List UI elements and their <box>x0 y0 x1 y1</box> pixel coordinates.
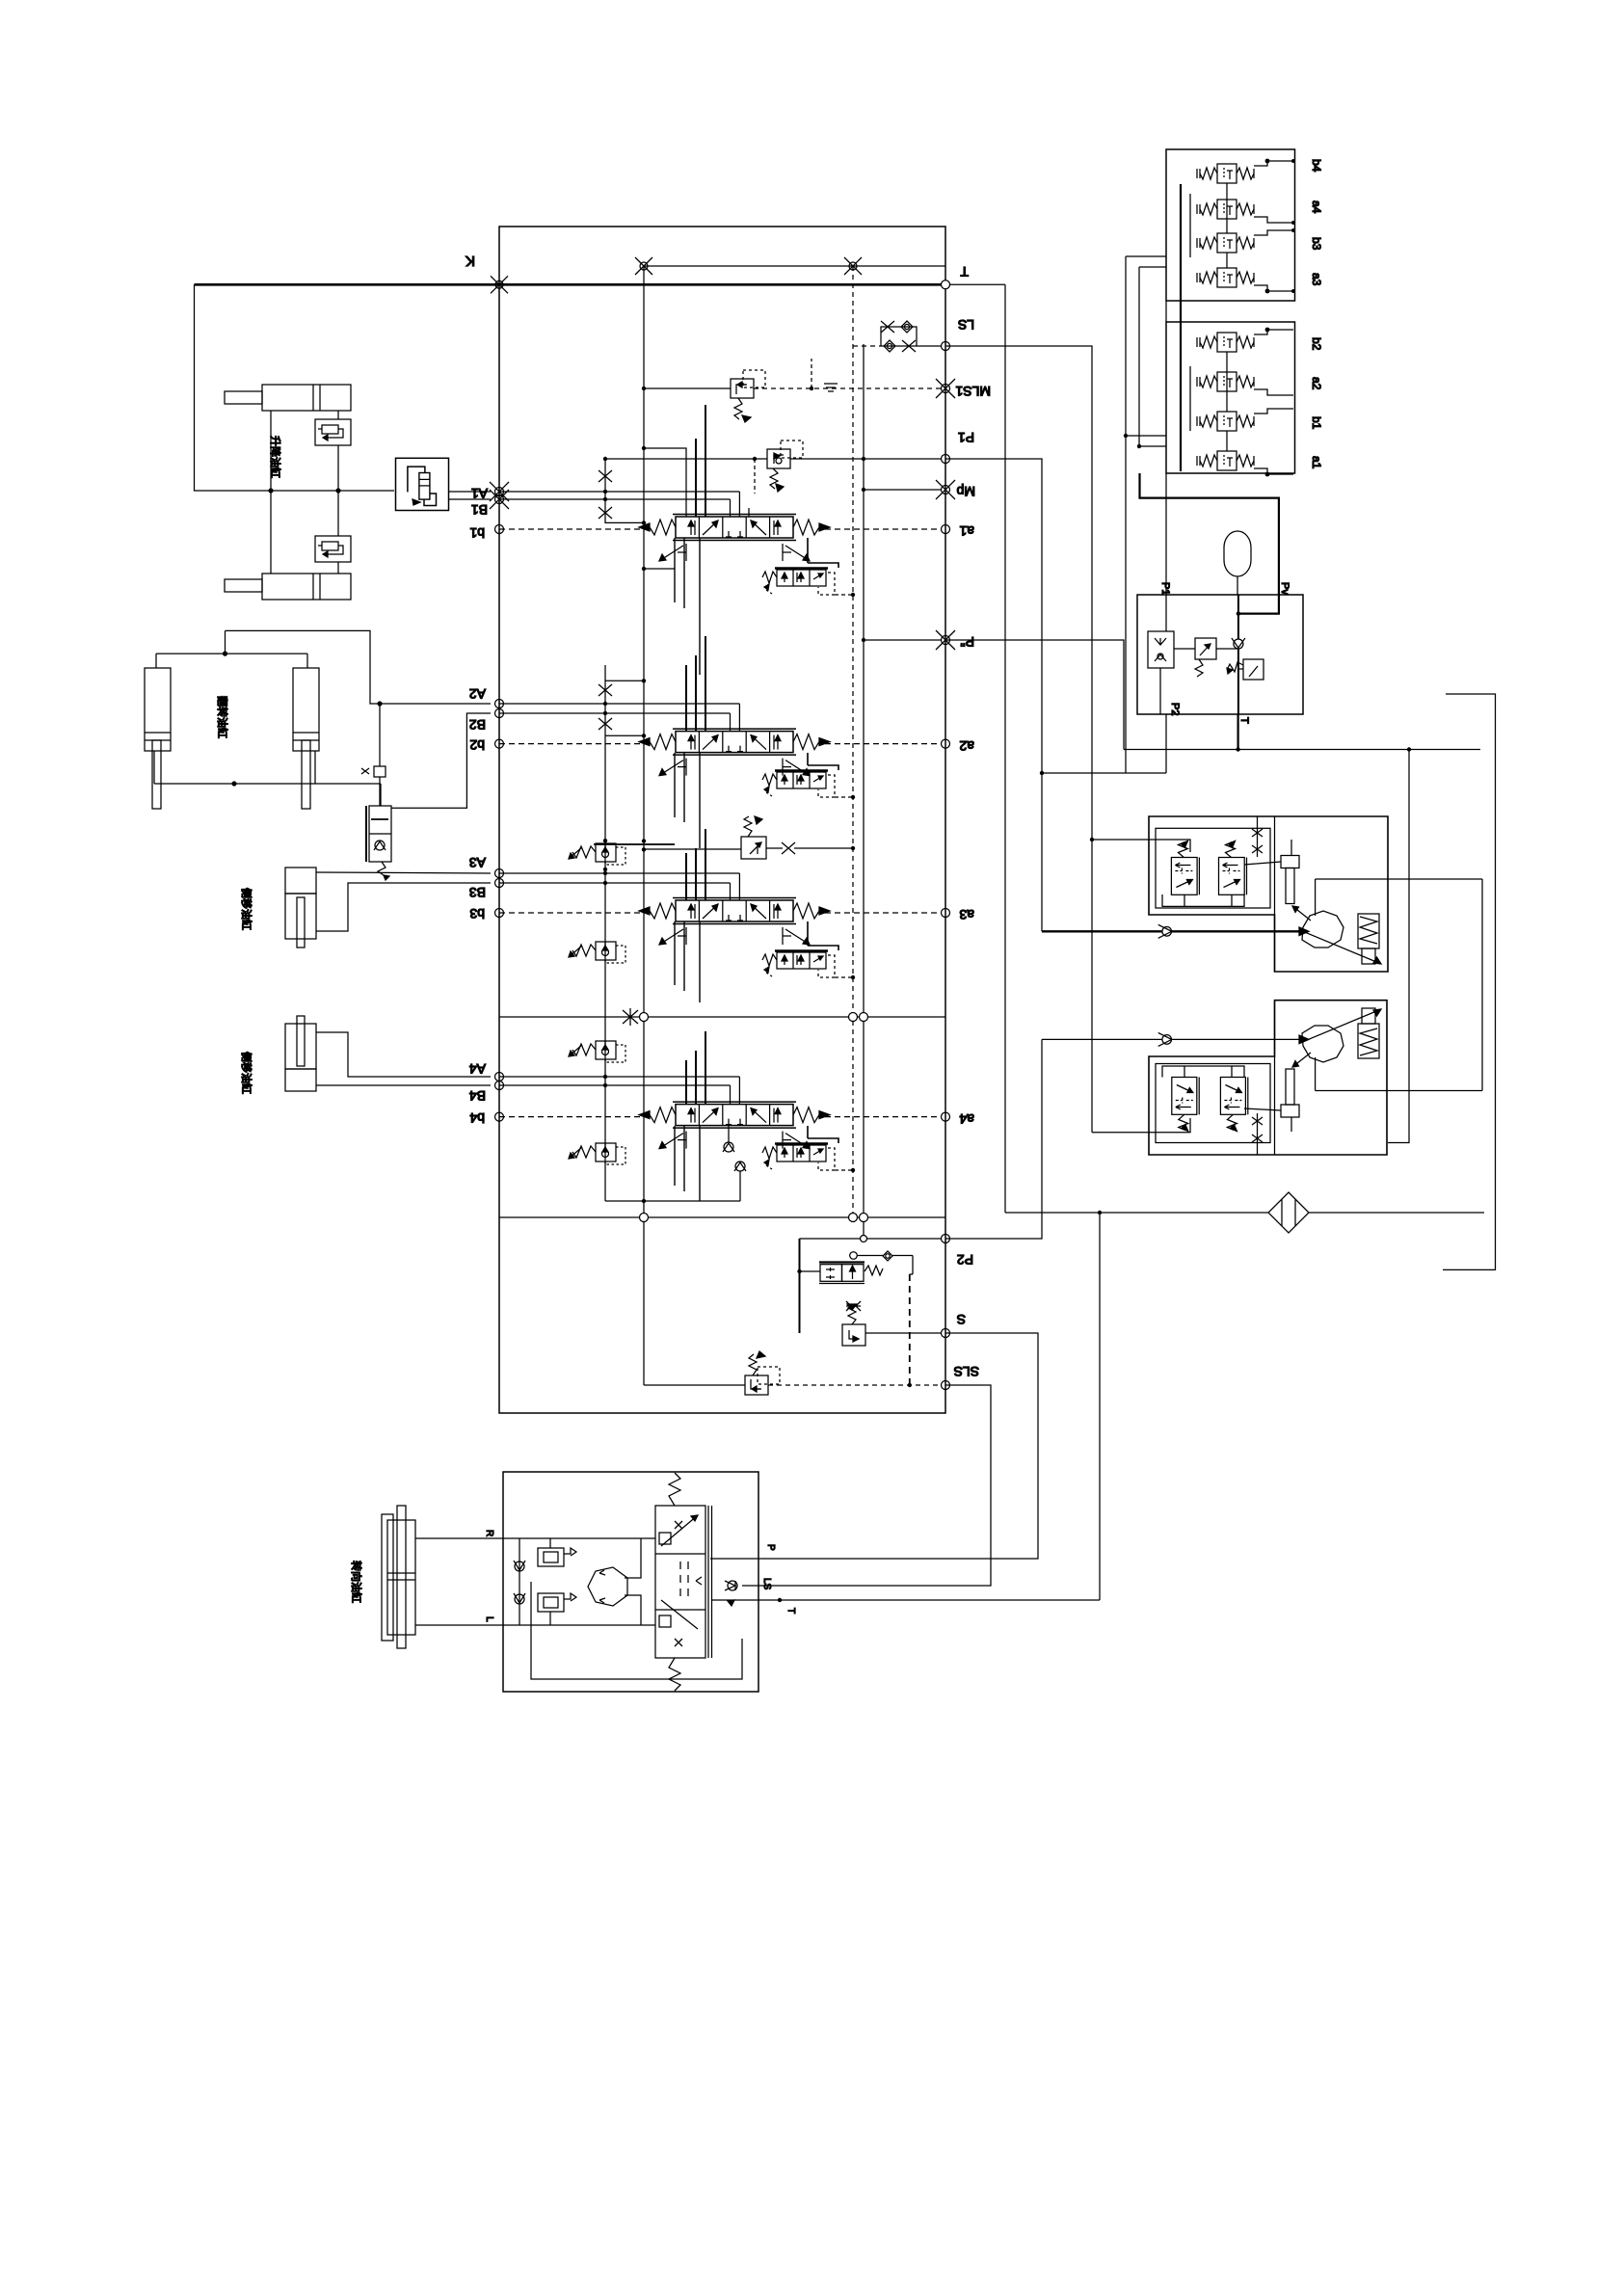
pilot reducing valve 4a <box>569 1041 625 1062</box>
svg-text:T: T <box>1238 717 1250 724</box>
motor1 LS feed <box>1092 840 1190 852</box>
lift cylinder 2 risers <box>270 491 272 574</box>
pilot reducing valve 4b <box>569 1143 625 1164</box>
brake cylinder 2 <box>1281 1105 1299 1117</box>
A3 cylinder lines <box>316 872 491 873</box>
section4 A/B feeds <box>499 1076 739 1078</box>
bus 668 crossing circles at separators <box>640 1013 649 1022</box>
section3 A/B feeds <box>499 872 739 874</box>
port A4 <box>495 1073 504 1081</box>
overload/make-up valve <box>361 766 391 880</box>
svg-text:Mp: Mp <box>956 484 975 499</box>
svg-text:翻转油缸: 翻转油缸 <box>216 696 229 738</box>
motor 2 <box>1302 1026 1344 1062</box>
supply block internals <box>1148 595 1264 714</box>
svg-text:LS: LS <box>761 1578 772 1590</box>
svg-text:侧移油缸: 侧移油缸 <box>240 888 253 930</box>
P2 line right <box>945 1039 1042 1239</box>
svg-text:a2: a2 <box>1310 377 1323 390</box>
bridge check bottom <box>884 340 895 352</box>
box connector stubs <box>1165 301 1167 322</box>
svg-text:LS: LS <box>958 317 974 333</box>
motor1 case drain drop <box>1388 750 1409 1143</box>
port a4 <box>942 1112 950 1121</box>
SLS line right to steering LS <box>742 1385 991 1586</box>
port a3 <box>942 909 950 918</box>
S relief valve <box>842 1304 865 1346</box>
svg-text:b4: b4 <box>1310 159 1323 173</box>
box2 output rails <box>1254 330 1293 334</box>
T tank drop <box>1004 284 1006 1213</box>
SLS dashed to port <box>768 1384 942 1386</box>
svg-text:a1: a1 <box>1310 456 1323 469</box>
brake cylinder 1 <box>1281 856 1299 868</box>
pilot feed verticals <box>1125 256 1127 773</box>
tank/filter line <box>1005 1212 1268 1214</box>
dashed drop from P1 line <box>754 459 756 494</box>
b3-a3 pilot line <box>499 912 644 914</box>
svg-text:Pv: Pv <box>1279 582 1290 595</box>
top inner tank line <box>644 265 945 267</box>
svg-text:b4: b4 <box>469 1110 485 1126</box>
box1 inner connectors <box>1226 183 1228 233</box>
svg-text:B4: B4 <box>469 1088 486 1104</box>
svg-text:a4: a4 <box>959 1111 974 1127</box>
prv a4 <box>1197 200 1254 219</box>
S line right to steering P <box>710 1333 1038 1559</box>
svg-text:P2: P2 <box>957 1252 973 1268</box>
supply block P2 stub <box>1165 714 1167 773</box>
steering control valve <box>655 1506 705 1658</box>
motor1 orifices <box>1252 829 1263 837</box>
pump regulator piston <box>820 1265 842 1282</box>
svg-text:P1: P1 <box>958 430 974 445</box>
right tank main vertical <box>1443 694 1496 1269</box>
svg-text:b2: b2 <box>1310 337 1323 351</box>
dashed drop to SLS <box>909 1274 911 1385</box>
steering cylinder <box>387 1520 415 1635</box>
port B3 <box>495 879 504 888</box>
port b2 <box>495 739 504 748</box>
svg-text:S: S <box>957 1312 966 1327</box>
port P'' <box>936 630 955 650</box>
pilot relief <box>1243 659 1264 680</box>
steering T riser <box>1099 1213 1101 1600</box>
solid bus x=896 <box>863 344 865 1239</box>
pilot box 1 <box>1166 149 1295 301</box>
MLS1 relief valve <box>731 379 754 422</box>
pilot feed branch <box>1042 772 1166 774</box>
vertical bus x=668 <box>643 266 645 1385</box>
motor1 bottom rail <box>1162 894 1244 906</box>
valve2 top connectors <box>686 636 705 731</box>
svg-text:B3: B3 <box>469 885 486 900</box>
P'' line <box>864 639 942 641</box>
LS check <box>725 1581 737 1590</box>
svg-text:a3: a3 <box>1310 273 1323 286</box>
tilt cylinder L <box>145 668 171 809</box>
cb valve 1a <box>1171 841 1199 895</box>
valve2 bottom connectors <box>675 753 700 848</box>
SLS feed from bus <box>644 1384 745 1386</box>
motor2 valve sub-box <box>1156 1064 1270 1143</box>
compensator section3 <box>741 816 766 859</box>
LS branch to motor1 <box>1090 838 1094 841</box>
port S <box>942 1329 950 1338</box>
dashed LS bus x=885 <box>852 266 854 1217</box>
L line <box>415 1624 655 1626</box>
valve4 top connectors <box>686 1031 705 1104</box>
prv b2 <box>1197 333 1254 352</box>
MLS1 drain mark <box>824 384 838 391</box>
spool valve 4 <box>639 1102 830 1149</box>
anti-drift valve 4 <box>762 1144 835 1171</box>
valve3 top connectors <box>686 829 705 900</box>
crossover check valves <box>519 1538 520 1625</box>
port Mp <box>936 480 955 499</box>
inlet shuttle <box>1148 631 1174 668</box>
left outer loop wire <box>195 284 395 491</box>
check on motor2 pilot <box>1158 1032 1172 1046</box>
section2 A/B feeds <box>499 703 739 705</box>
overload valve to B2 <box>391 713 491 808</box>
box1 port dots <box>1291 159 1295 163</box>
A1 line filter box <box>396 458 449 510</box>
svg-text:SLS: SLS <box>954 1364 979 1379</box>
svg-text:P2: P2 <box>1169 703 1181 715</box>
T line inside <box>712 1599 743 1601</box>
prv b4 <box>1197 164 1254 183</box>
valve1 bottom connectors <box>675 538 700 675</box>
motor2 internal lines <box>1315 1057 1317 1091</box>
pilot box 2 <box>1166 322 1295 473</box>
Pv pressure line (thick) <box>1140 473 1279 595</box>
spool valve 3 <box>639 898 830 946</box>
section2 orifices <box>599 684 612 696</box>
K / T main line (thick) <box>195 283 946 286</box>
lift cylinder 1 (top) <box>225 385 351 411</box>
spool center dashes <box>680 1562 688 1596</box>
drain header <box>1124 749 1480 751</box>
svg-text:升降油缸: 升降油缸 <box>269 436 282 478</box>
svg-text:A4: A4 <box>469 1061 486 1077</box>
svg-text:R: R <box>484 1530 494 1536</box>
svg-text:MLS1: MLS1 <box>955 384 991 399</box>
b1-a1 pilot line (dashed) <box>499 528 644 530</box>
P1 line across block <box>605 458 767 460</box>
port SLS <box>942 1381 950 1390</box>
svg-text:b1: b1 <box>469 525 485 541</box>
accumulator <box>1224 531 1251 595</box>
section separator 2 <box>499 1216 945 1218</box>
section separator 1 <box>499 1016 945 1018</box>
port LS <box>942 342 950 351</box>
tilt rod-end tie line <box>156 653 307 654</box>
svg-text:K: K <box>466 253 475 269</box>
motor2 pilot line (thick) <box>1042 1038 1299 1040</box>
spool valve 1 <box>639 515 830 562</box>
bridge orifice top <box>881 321 894 333</box>
tilt cylinder R <box>293 668 319 809</box>
S line <box>865 1332 942 1334</box>
svg-text:P1: P1 <box>1159 582 1171 595</box>
motor1 internal lines <box>1315 879 1317 916</box>
A2 supply route <box>226 630 492 704</box>
port A2 <box>495 700 504 708</box>
steering inner box <box>531 1582 742 1679</box>
port B2 <box>495 709 504 718</box>
anti-drift valve 1 <box>762 569 835 596</box>
port P1 <box>942 455 950 464</box>
port T <box>942 280 950 289</box>
motor2 top rail <box>1162 1066 1244 1078</box>
svg-text:b2: b2 <box>469 737 485 753</box>
check valves below valve4 <box>723 1142 734 1152</box>
tilt bottom tie line <box>154 783 381 785</box>
LS line right <box>945 346 1092 1133</box>
LS check bridge frame <box>881 327 917 346</box>
svg-text:P: P <box>765 1544 776 1551</box>
prv a1 <box>1197 451 1254 470</box>
spool valve 2 <box>639 729 830 776</box>
svg-text:B1: B1 <box>471 502 488 518</box>
prv b1 <box>1197 412 1254 431</box>
motor2 L-outline <box>1149 1001 1387 1155</box>
plug X on K line at block edge <box>491 276 508 293</box>
cb valve 2b <box>1220 1078 1247 1132</box>
motor 1 <box>1302 911 1344 948</box>
cb valve 2a <box>1172 1078 1199 1132</box>
reducing valve <box>1195 638 1216 659</box>
prv a3 <box>1197 268 1254 287</box>
pilot reducing valve 3b <box>569 942 625 963</box>
A2 branch to overload valve <box>379 704 381 766</box>
SLS relief valve <box>745 1351 768 1395</box>
svg-text:P'': P'' <box>960 634 974 650</box>
cb valve 2 <box>315 536 351 562</box>
port relief R <box>538 1538 576 1566</box>
gerotor <box>588 1567 627 1606</box>
svg-text:b1: b1 <box>1310 416 1323 430</box>
port A3 <box>495 869 504 878</box>
bottom collector line section 4 <box>605 1200 740 1202</box>
box2 inner connectors <box>1226 352 1228 412</box>
svg-text:侧移油缸: 侧移油缸 <box>240 1052 253 1094</box>
check ball right <box>883 1251 892 1261</box>
bridge orifice bottom <box>902 340 916 352</box>
orifice on separator 1 <box>623 1008 638 1026</box>
port a1 <box>942 525 950 534</box>
svg-text:a2: a2 <box>959 738 974 754</box>
port b1 <box>495 525 504 534</box>
svg-text:b3: b3 <box>1310 237 1323 251</box>
svg-text:a4: a4 <box>1310 200 1323 214</box>
orifices on bus 628 section1 <box>599 470 612 482</box>
anti-drift valve 3 <box>762 951 835 978</box>
check on motor1 pilot <box>1158 924 1172 938</box>
port P2 <box>942 1235 950 1243</box>
svg-text:B2: B2 <box>469 717 486 733</box>
svg-text:A2: A2 <box>469 686 486 702</box>
svg-text:L: L <box>484 1616 494 1622</box>
MLS1 relief feed from bus <box>644 387 731 389</box>
Mp stub <box>864 489 942 491</box>
P2 feed drop <box>799 1239 801 1333</box>
P1 line right <box>945 459 1042 931</box>
LS line to bridge <box>853 345 881 347</box>
motor2 LS feed <box>1092 1118 1190 1133</box>
motor1 pilot line (thick) <box>1042 930 1299 932</box>
prv a2 <box>1197 372 1254 391</box>
bridge check top <box>901 321 913 333</box>
valve3 bottom connectors <box>675 921 700 1002</box>
svg-text:a1: a1 <box>959 523 974 539</box>
port b3 <box>495 909 504 918</box>
motor outlet tie <box>1481 879 1483 1091</box>
svg-text:转向油缸: 转向油缸 <box>350 1561 363 1603</box>
svg-text:T: T <box>785 1608 796 1614</box>
motor1 L-outline <box>1149 816 1388 972</box>
plug on tank line left <box>635 257 652 275</box>
return filter <box>1268 1192 1309 1233</box>
MLS1 dashed line <box>754 387 942 389</box>
P1 compensator <box>767 449 790 492</box>
prv b3 <box>1197 233 1254 253</box>
check to accumulator <box>1232 638 1245 649</box>
cb valve 1b <box>1219 841 1247 895</box>
valve4 bottom connectors <box>675 1126 700 1201</box>
plug on tank line right <box>844 257 862 275</box>
valve1 top connectors <box>644 448 686 517</box>
lift cylinder 2 (bottom) <box>225 574 351 600</box>
P2 line <box>800 1238 943 1240</box>
port B4 <box>495 1081 504 1090</box>
steering block outline <box>503 1472 758 1692</box>
main block outline <box>499 227 945 1413</box>
box1 output rails <box>1254 161 1293 166</box>
regulator top port circle <box>850 1252 858 1260</box>
svg-text:b3: b3 <box>469 906 485 921</box>
springs top/bottom <box>669 1473 680 1506</box>
pilot pressure rail (thick) through boxes <box>1180 184 1182 471</box>
P'' drain route <box>945 640 1124 750</box>
port b4 <box>495 1112 504 1121</box>
motor2 orifices <box>1252 1117 1263 1125</box>
pilot reducing valve 3a <box>569 843 625 865</box>
b4-a4 pilot line <box>499 1116 644 1118</box>
b2-a2 pilot line <box>499 743 644 745</box>
svg-text:A3: A3 <box>469 855 486 870</box>
svg-text:T: T <box>960 264 969 280</box>
section1 A/B feed lines <box>499 491 739 493</box>
A4 cylinder lines <box>316 1032 491 1077</box>
port relief L <box>538 1593 576 1625</box>
svg-text:a3: a3 <box>959 907 974 922</box>
lift cylinder 1 drops <box>270 411 272 491</box>
dashed stub above MLS1 line <box>811 359 812 388</box>
port A1 B1 double X <box>490 482 509 501</box>
anti-drift valve 2 <box>762 771 835 798</box>
supply block T drop (thick) <box>1237 714 1238 750</box>
port MLS1 <box>936 379 955 398</box>
port a2 <box>942 739 950 748</box>
R line <box>415 1537 655 1539</box>
cb valve 1 <box>315 419 351 445</box>
motor1 valve sub-box <box>1156 828 1270 908</box>
motor1 displacement spring <box>1358 914 1379 948</box>
motor2 displacement spring <box>1358 1024 1379 1058</box>
